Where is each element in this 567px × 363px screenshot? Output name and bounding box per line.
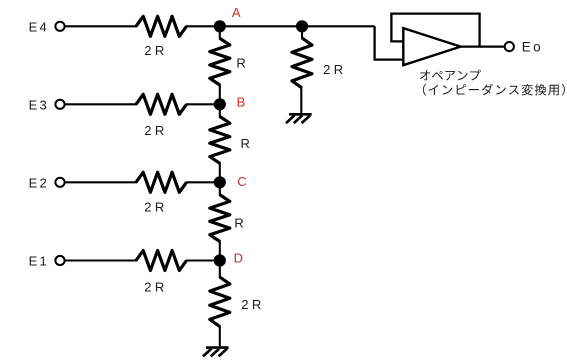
wire down to non-inverting input <box>375 26 404 59</box>
node D <box>214 254 226 266</box>
junction node (top, feed to 2R ground leg) <box>296 20 308 32</box>
svg-text:2R: 2R <box>144 200 167 215</box>
svg-text:E1: E1 <box>29 254 49 269</box>
resistor 2R (terminating, below D) <box>210 277 230 327</box>
resistor 2R (input E2) <box>136 172 187 192</box>
svg-text:C: C <box>237 174 246 189</box>
svg-text:2R: 2R <box>144 43 167 58</box>
resistor R (ladder A-B) <box>210 38 230 85</box>
wire resistor to ladder node <box>186 181 220 183</box>
wire node A to op-amp input path <box>220 25 375 27</box>
wire resistor to ground (top right) <box>300 87 302 114</box>
svg-text:2R: 2R <box>144 123 167 138</box>
feedback wire (output to inverting input) <box>391 14 479 47</box>
annotation line 2 <box>423 84 565 96</box>
svg-text:Eo: Eo <box>522 40 543 55</box>
wire node to resistor R3 <box>219 182 221 195</box>
node A <box>214 20 226 32</box>
output wire <box>460 45 505 47</box>
wire E3 terminal to resistor <box>65 103 137 105</box>
resistor 2R (top right, to ground) <box>301 26 303 39</box>
wire resistor to ladder node <box>186 259 220 261</box>
wire node D to resistor 2R (terminating) <box>219 261 221 279</box>
svg-text:B: B <box>237 94 246 109</box>
resistor R (ladder B-C) <box>210 117 230 164</box>
input terminal E4 <box>55 22 64 31</box>
input terminal E2 <box>55 178 64 187</box>
resistor 2R (input E4) <box>136 16 187 36</box>
wire resistor R1 to node B <box>219 84 221 104</box>
svg-text:D: D <box>234 251 243 266</box>
input terminal E1 <box>55 256 64 265</box>
wire resistor R3 to node D <box>219 241 221 261</box>
wire node to resistor R1 <box>219 26 221 39</box>
annotation: op-amp (impedance conversion) line 1 <box>420 70 481 81</box>
svg-text:2R: 2R <box>241 297 264 312</box>
node B <box>214 98 226 110</box>
wire E1 terminal to resistor <box>65 259 137 261</box>
wire E2 terminal to resistor <box>65 181 137 183</box>
wire resistor to ground <box>219 326 221 348</box>
svg-text:2R: 2R <box>144 279 167 294</box>
svg-text:A: A <box>232 5 241 20</box>
input terminal E3 <box>55 100 64 109</box>
svg-text:2R: 2R <box>323 62 346 77</box>
svg-text:E4: E4 <box>29 19 49 34</box>
wire resistor to ladder node <box>186 25 220 27</box>
ground (top right) <box>289 113 312 116</box>
output terminal Eo <box>505 42 514 51</box>
wire resistor to ladder node <box>186 103 220 105</box>
svg-text:R: R <box>234 215 243 230</box>
op-amp U1 (impedance converter) <box>403 28 460 65</box>
svg-text:R: R <box>236 56 245 71</box>
ground (bottom of ladder) <box>206 346 229 349</box>
resistor 2R (input E3) <box>136 94 187 114</box>
svg-text:R: R <box>241 136 250 151</box>
node C <box>214 176 226 188</box>
resistor R (ladder C-D) <box>210 195 230 242</box>
wire node to resistor R2 <box>219 104 221 117</box>
svg-text:E3: E3 <box>29 97 49 112</box>
wire E4 terminal to resistor <box>65 25 137 27</box>
wire resistor R2 to node C <box>219 162 221 182</box>
resistor 2R (input E1) <box>136 251 187 271</box>
svg-text:E2: E2 <box>29 175 49 190</box>
